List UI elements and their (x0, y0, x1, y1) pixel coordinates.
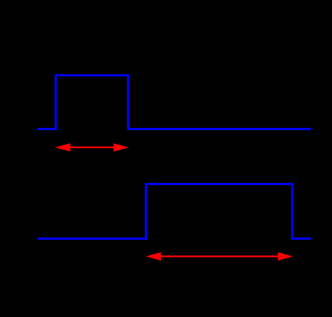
node: left arrowhead of output pulse width arrow (146, 252, 161, 260)
wire: arrow shaft for input pulse width (66, 146, 118, 148)
wire: output pulse waveform (blue, bottom) (38, 184, 312, 239)
node: left arrowhead of input pulse width arrow (55, 143, 70, 151)
node: right arrowhead of input pulse width arrow (114, 143, 129, 151)
wire: arrow shaft for output pulse width (156, 255, 283, 257)
node: right arrowhead of output pulse width arrow (278, 252, 293, 260)
wire: input pulse waveform (blue, top) (38, 75, 312, 129)
